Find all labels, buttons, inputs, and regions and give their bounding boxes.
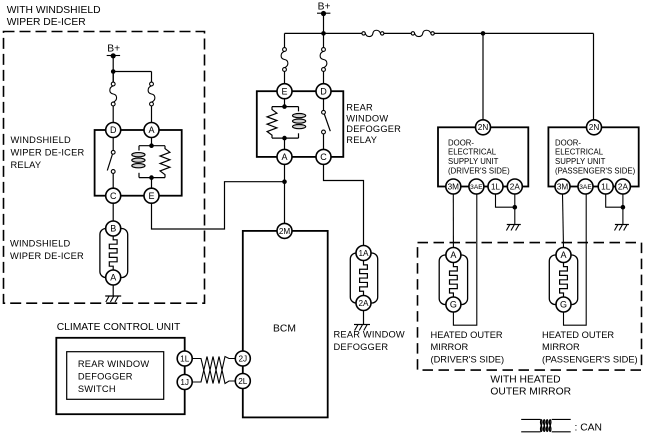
svg-text:WIPER DE-ICER: WIPER DE-ICER (11, 148, 85, 158)
svg-text:DEFOGGER: DEFOGGER (334, 342, 389, 352)
svg-text:REAR: REAR (346, 103, 373, 113)
svg-text:: CAN: : CAN (575, 422, 602, 433)
svg-text:B: B (110, 224, 116, 234)
svg-text:DEFOGGER: DEFOGGER (78, 371, 133, 381)
svg-text:DOOR-: DOOR- (555, 138, 581, 147)
svg-text:2J: 2J (238, 354, 247, 363)
svg-text:MIRROR: MIRROR (542, 342, 580, 352)
svg-text:(DRIVER'S SIDE): (DRIVER'S SIDE) (448, 167, 510, 176)
svg-text:SUPPLY UNIT: SUPPLY UNIT (555, 157, 606, 166)
svg-text:RELAY: RELAY (346, 135, 377, 145)
svg-text:(DRIVER'S SIDE): (DRIVER'S SIDE) (431, 355, 505, 365)
svg-text:WIPER DE-ICER: WIPER DE-ICER (7, 17, 86, 28)
svg-text:SUPPLY UNIT: SUPPLY UNIT (448, 157, 499, 166)
svg-text:WINDSHIELD: WINDSHIELD (11, 135, 71, 145)
svg-text:RELAY: RELAY (11, 160, 42, 170)
svg-text:3M: 3M (448, 182, 460, 191)
svg-text:A: A (281, 152, 287, 162)
svg-text:B+: B+ (318, 1, 331, 12)
svg-text:1L: 1L (491, 182, 501, 191)
svg-text:2A: 2A (510, 182, 521, 191)
svg-text:E: E (148, 191, 154, 201)
svg-text:REAR WINDOW: REAR WINDOW (78, 359, 149, 369)
svg-text:REAR WINDOW: REAR WINDOW (334, 330, 405, 340)
svg-text:C: C (320, 152, 327, 162)
svg-text:DOOR-: DOOR- (448, 138, 474, 147)
svg-text:A: A (110, 273, 116, 283)
svg-text:WINDOW: WINDOW (346, 113, 388, 123)
svg-text:(PASSENGER'S SIDE): (PASSENGER'S SIDE) (542, 355, 638, 365)
svg-text:2N: 2N (478, 123, 489, 132)
svg-text:A: A (450, 250, 456, 260)
svg-text:G: G (560, 300, 567, 310)
svg-text:HEATED OUTER: HEATED OUTER (431, 330, 503, 340)
svg-text:SWITCH: SWITCH (78, 384, 116, 394)
svg-text:ELECTRICAL: ELECTRICAL (448, 148, 497, 157)
svg-text:1L: 1L (601, 182, 611, 191)
svg-text:BCM: BCM (273, 324, 296, 335)
svg-text:2L: 2L (238, 377, 248, 386)
svg-text:MIRROR: MIRROR (431, 342, 469, 352)
svg-text:A: A (148, 125, 154, 135)
svg-text:3M: 3M (557, 182, 569, 191)
svg-text:1A: 1A (358, 249, 369, 258)
svg-text:2N: 2N (589, 123, 600, 132)
svg-text:WITH WINDSHIELD: WITH WINDSHIELD (7, 5, 101, 16)
svg-text:1L: 1L (180, 354, 190, 363)
svg-text:CLIMATE CONTROL UNIT: CLIMATE CONTROL UNIT (57, 322, 181, 333)
svg-text:DEFOGGER: DEFOGGER (346, 124, 401, 134)
svg-text:D: D (110, 125, 117, 135)
svg-text:(PASSENGER'S SIDE): (PASSENGER'S SIDE) (555, 167, 636, 176)
svg-text:D: D (320, 86, 327, 96)
svg-text:WINDSHIELD: WINDSHIELD (10, 239, 70, 249)
svg-text:A: A (560, 250, 566, 260)
svg-text:WITH HEATED: WITH HEATED (490, 375, 560, 386)
svg-text:1J: 1J (180, 378, 189, 387)
svg-text:E: E (281, 86, 287, 96)
svg-text:C: C (110, 191, 117, 201)
svg-text:B+: B+ (107, 44, 120, 55)
svg-text:G: G (450, 300, 457, 310)
svg-text:2A: 2A (618, 182, 629, 191)
svg-text:HEATED OUTER: HEATED OUTER (542, 330, 614, 340)
svg-text:3AE: 3AE (579, 184, 592, 191)
svg-text:OUTER MIRROR: OUTER MIRROR (490, 387, 571, 398)
svg-text:ELECTRICAL: ELECTRICAL (555, 148, 604, 157)
svg-text:2M: 2M (279, 227, 291, 236)
svg-text:2A: 2A (358, 299, 369, 308)
svg-text:3AE: 3AE (470, 184, 483, 191)
svg-text:WIPER DE-ICER: WIPER DE-ICER (10, 251, 84, 261)
